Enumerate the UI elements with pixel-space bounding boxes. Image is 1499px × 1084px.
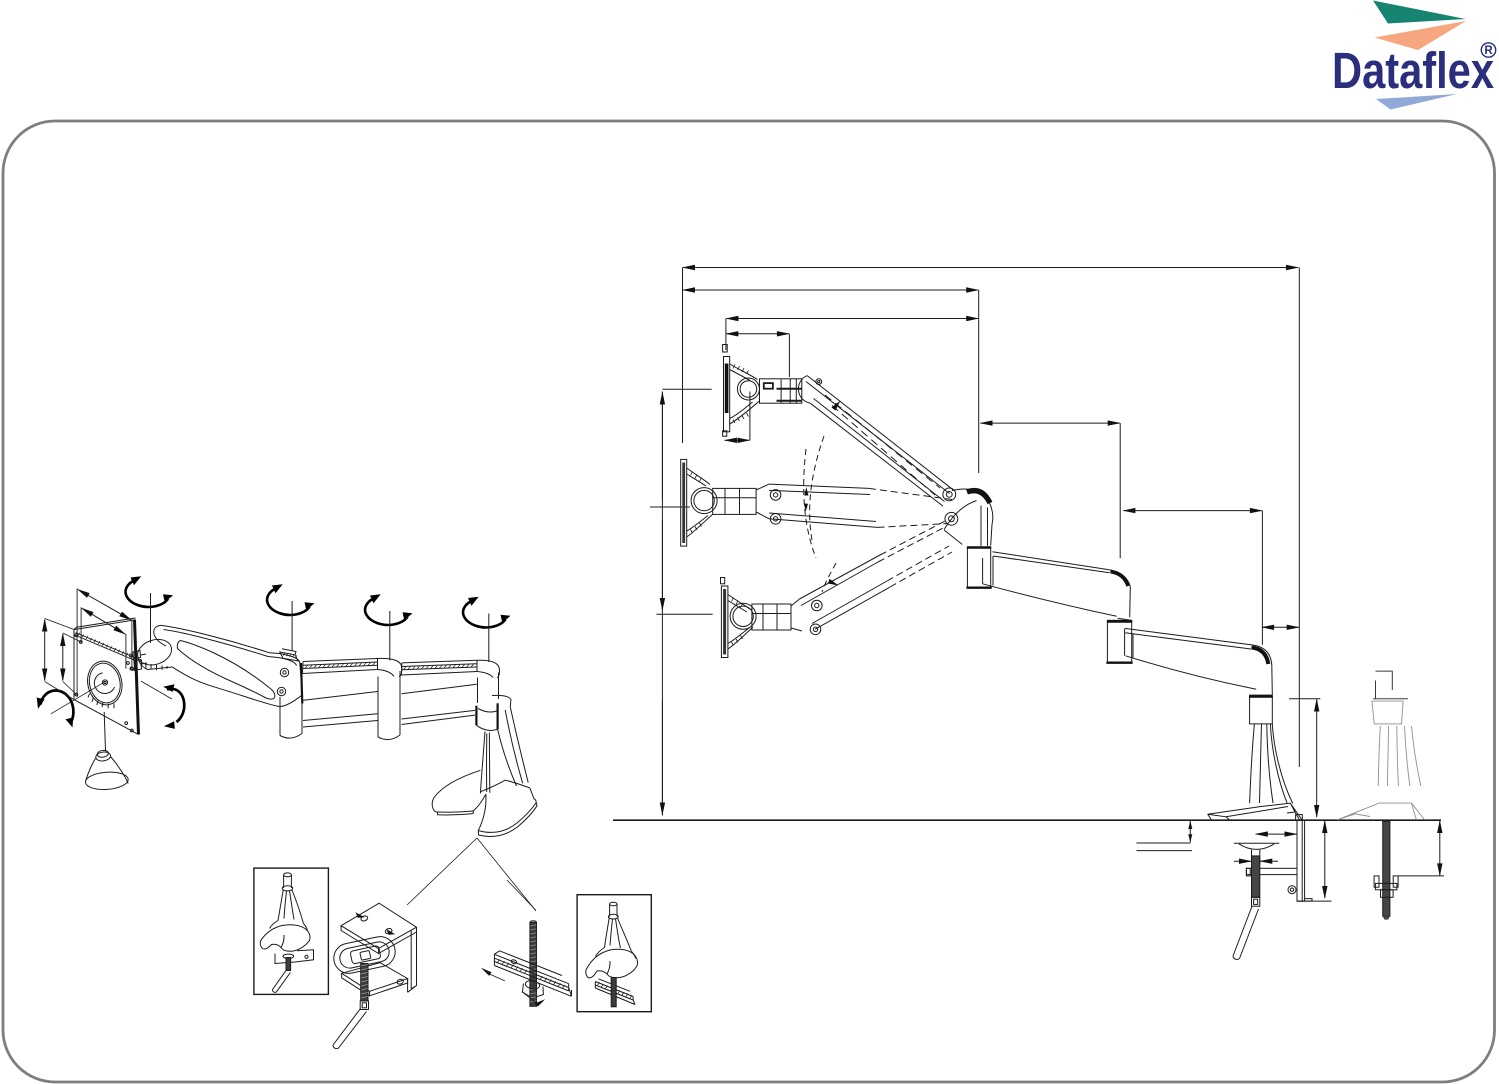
dimension: reach to elbow — [683, 289, 978, 291]
joint2 cap — [378, 658, 402, 676]
rotation axis line tilt — [141, 681, 172, 699]
rod width dim — [1234, 857, 1278, 865]
threaded rod + channel assembly — [481, 880, 572, 1007]
extension line elbow — [978, 290, 980, 473]
joint 2 pillar — [1106, 620, 1132, 663]
low position head (ghost) — [721, 520, 953, 658]
elbow housing — [944, 501, 987, 546]
channel nut bracket — [1374, 876, 1398, 897]
right side plate — [408, 927, 417, 992]
head block right edge — [301, 663, 302, 704]
stand height dimension — [1316, 700, 1318, 818]
clamp pad — [1234, 843, 1280, 856]
head joint axis line — [150, 593, 152, 643]
cable cone hanger line — [104, 712, 105, 751]
joint3 axis line — [488, 614, 490, 663]
clamp depth dim — [1256, 833, 1297, 835]
gas arm head cap — [280, 649, 298, 661]
clamp arm — [1246, 868, 1297, 876]
logo green triangle — [1373, 1, 1466, 24]
channel rail — [494, 951, 571, 997]
top plate — [341, 903, 416, 948]
rod end + handle — [360, 1001, 368, 1010]
extension line left of dim1/dim2 — [682, 268, 684, 444]
vesa plate front face — [74, 620, 138, 734]
dimension: total reach top — [683, 267, 1298, 269]
extension line bracket — [788, 334, 790, 377]
height dimension vertical — [661, 392, 663, 816]
motion range arcs (dashed) — [810, 436, 824, 540]
joint3 cap — [477, 660, 500, 677]
dimension: joint2 to joint3 — [1123, 510, 1262, 512]
link arm 2 (side) — [1125, 628, 1273, 694]
tilt arrow (bold) — [167, 689, 184, 722]
threaded rod — [361, 964, 368, 1002]
elbow cap — [952, 489, 993, 545]
desk stand foot (iso) — [432, 770, 537, 836]
bolt-through stand (ghost) — [1373, 671, 1408, 699]
bottom plate — [342, 963, 408, 992]
logo registered mark — [1481, 43, 1495, 57]
leader lines to detail drawings — [407, 838, 477, 905]
vesa plate top thickness edge — [74, 618, 136, 630]
vesa disc (iso, behind arm) — [134, 635, 175, 669]
clamp handle — [1233, 907, 1259, 960]
dimension: plate to elbow — [726, 318, 978, 320]
gas arm raised (solid) — [798, 376, 953, 507]
top position ball joint — [737, 378, 759, 400]
svg-text:R: R — [1484, 45, 1493, 57]
top position VESA plate side view — [723, 345, 760, 437]
vesa dim slant outer — [78, 590, 131, 620]
joint2 axis line — [389, 611, 391, 661]
desk surface line — [613, 819, 1441, 821]
disc rim hatching — [88, 694, 114, 709]
desk stand column (iso) — [480, 707, 528, 794]
plate-to-arm bracket — [133, 651, 147, 671]
small arrows — [481, 968, 492, 976]
mid position head (ghost) — [681, 459, 952, 546]
pan arrow joint2 (bold) — [365, 594, 412, 625]
gas arm housing (iso) — [154, 625, 302, 706]
stand foot — [1208, 803, 1302, 820]
mini stand in box 1 — [260, 873, 313, 992]
svg-text:Dataflex: Dataflex — [1332, 42, 1494, 99]
gas arm top pivot — [816, 379, 822, 385]
dimension: joint3 to arm end — [1262, 626, 1299, 628]
leader tail — [507, 880, 536, 910]
dimension: head length — [726, 333, 789, 335]
height extension lines — [662, 388, 711, 390]
stand pin housing cylinder — [476, 703, 497, 730]
desk min thickness dimension — [1189, 821, 1191, 843]
oval lever ring — [331, 934, 398, 976]
range arrowheads — [832, 401, 841, 411]
quick release disc — [84, 658, 126, 708]
through bolt — [1383, 822, 1390, 917]
joint2 pillar — [378, 671, 400, 740]
plate diagonal rail band — [76, 633, 135, 658]
clamp back plate — [1296, 815, 1312, 902]
elbow pivots — [943, 488, 956, 501]
detail box 2 frame — [577, 895, 651, 1012]
vesa mounting holes — [75, 634, 78, 637]
gas arm head screws — [280, 668, 288, 676]
stand collar piece — [492, 695, 511, 707]
ball offset dim — [749, 392, 751, 441]
washer + nut under channel — [525, 980, 541, 990]
rotation axis line lower — [51, 682, 104, 714]
logo blue triangle — [1376, 94, 1457, 110]
stand column — [1250, 724, 1293, 804]
joint3 pillar / stand pin — [478, 673, 499, 704]
disc clutch hatching — [141, 660, 167, 670]
joint1 axis line — [291, 601, 293, 651]
pan arrow joint1 (bold) — [267, 584, 314, 615]
clamp threaded rod — [1252, 856, 1260, 897]
clamp screw — [1288, 886, 1296, 894]
joint1 pillar — [280, 697, 302, 738]
link tube 1 (iso) — [303, 659, 378, 728]
channel under mini stand — [595, 979, 635, 1005]
extension joint2 — [1119, 423, 1121, 558]
pan arrow head joint (bold) — [126, 576, 173, 607]
stand pin housing — [1249, 695, 1273, 724]
logo orange triangle — [1375, 21, 1467, 50]
bolt version dimension — [1439, 821, 1441, 875]
roll arrow (bold) — [41, 690, 74, 723]
extension line right long (arm end to desk) — [1298, 268, 1300, 768]
vesa dim vertical outer — [44, 620, 46, 681]
link arm 1 (side) — [966, 547, 1130, 620]
pan arrow joint3 (bold) — [463, 597, 510, 628]
vesa dim vertical inner — [62, 634, 64, 681]
logo group — [1332, 1, 1496, 110]
extension line plate — [725, 319, 727, 351]
c-clamp bracket (centre detail) — [331, 903, 416, 1048]
extension joint3 — [1261, 511, 1263, 645]
top position head bracket — [733, 365, 802, 424]
detail box 1 frame — [254, 868, 329, 994]
vesa plate right edge thick — [135, 620, 139, 735]
rod end fitting — [1252, 897, 1260, 906]
link tube 2 (iso) — [402, 660, 478, 724]
mini stand in box 2 — [586, 902, 638, 1007]
cable cone — [85, 750, 129, 791]
dimension: elbow to joint2 — [981, 422, 1120, 424]
vesa dim slant inner — [82, 608, 125, 634]
desk clamp max dimension — [1324, 821, 1326, 898]
